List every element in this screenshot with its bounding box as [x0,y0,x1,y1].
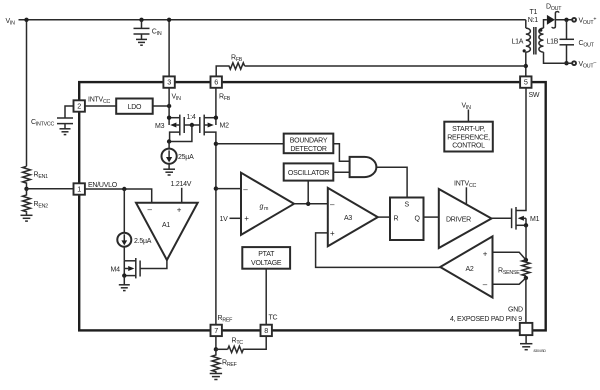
pin 5 [520,76,540,99]
IC boundary [79,82,546,330]
svg-text:2.5µA: 2.5µA [134,238,152,245]
wire Q to driver [424,216,439,218]
svg-text:8304 BD: 8304 BD [534,349,547,353]
pin 1 [74,182,118,195]
svg-text:1:4: 1:4 [187,114,196,121]
current source 2.5uA [117,189,151,261]
svg-text:g: g [260,204,264,211]
diode DOUT schottky [546,3,572,28]
ground under M4 [123,276,125,285]
resistor REN1 [23,166,49,189]
pin 7 [211,315,234,336]
current source 25uA [162,142,195,176]
svg-text:5: 5 [524,78,528,87]
wire gm output [294,203,328,205]
block STARTUP [444,103,493,152]
capacitor COUT [560,18,595,66]
block LDO [85,99,171,114]
svg-text:1: 1 [77,185,81,194]
phase dot L1A [523,49,526,52]
wire gm minus input [216,188,241,190]
winding L1B [539,28,544,52]
resistor RTC [214,336,267,352]
transformer T1 [512,9,559,76]
block PTAT VOLTAGE [242,247,290,325]
node junction dot VIN left [24,18,28,22]
svg-text:DRIVER: DRIVER [446,217,471,224]
svg-text:SW: SW [529,92,540,99]
terminal VOUT- [572,61,576,65]
winding L1A [526,28,531,52]
wire VIN top rail [19,19,526,21]
wire A1 out to M4 gate [140,260,167,269]
ground under REN2 [26,213,28,215]
wire pin3 rail from VIN [168,20,170,77]
svg-text:1.214V: 1.214V [171,181,192,188]
pin 2 [74,97,111,112]
transistor M4 [111,258,167,291]
svg-text:REFERENCE,: REFERENCE, [447,134,490,141]
pin 8 [261,315,278,337]
ground under 25uA source [168,164,170,169]
pin 4 GND pad [450,307,546,354]
svg-text:CONTROL: CONTROL [452,143,485,150]
svg-text:–: – [243,185,248,194]
latch SR [390,198,439,241]
svg-text:–: – [330,200,335,209]
svg-text:7: 7 [214,326,218,335]
terminal VOUT+ [572,18,576,22]
svg-text:M3: M3 [155,123,165,130]
node junction on EN wire [122,187,126,191]
wire A3 output to latch [378,216,390,218]
ground under CIN [136,38,147,40]
svg-text:A3: A3 [344,215,352,222]
svg-text:1V: 1V [220,216,229,223]
resistor RSENSE [498,225,530,323]
ground under GND pad [525,335,527,343]
svg-text:+: + [330,229,335,238]
amp gm [216,173,328,235]
node SW junction [524,64,528,68]
svg-text:Q: Q [415,215,421,222]
svg-text:+: + [177,205,182,214]
svg-text:TC: TC [269,315,278,322]
op-amp A3 [316,188,441,268]
svg-text:GND: GND [508,307,523,314]
node EN divider junction [24,187,28,191]
transistor M2 [167,88,229,325]
wire VIN left rail down to REN1 [26,20,28,167]
svg-text:START-UP,: START-UP, [452,126,485,133]
wire A2 minus input [493,278,526,284]
svg-text:L1B: L1B [547,39,559,46]
svg-text:4, EXPOSED PAD PIN 9: 4, EXPOSED PAD PIN 9 [450,316,522,323]
svg-text:BOUNDARY: BOUNDARY [290,137,328,144]
capacitor CINTVCC [31,106,74,135]
svg-text:+: + [483,249,488,258]
svg-text:2: 2 [77,102,81,111]
block BOUNDARY DETECTOR [216,134,350,162]
svg-text:M1: M1 [530,216,540,223]
ground under RREF [210,373,222,375]
svg-text:–: – [148,205,153,214]
wire gate tie 1:4 [184,124,200,126]
svg-text:6: 6 [214,78,218,87]
pin 3 [163,76,181,102]
svg-text:EN/UVLO: EN/UVLO [88,182,118,189]
svg-text:L1A: L1A [512,39,524,46]
wire primary top lead [525,20,527,28]
resistor RFB [216,55,526,77]
wire internal rail pin6 to pin7 junction dots [214,142,218,146]
wire secondary top lead [544,20,547,28]
svg-text:DETECTOR: DETECTOR [290,146,327,153]
op-amp A2 [440,236,526,297]
svg-text:A2: A2 [466,266,474,273]
svg-text:3: 3 [167,78,171,87]
svg-text:PTAT: PTAT [258,251,275,258]
phase dot L1B [539,29,542,32]
driver [439,181,492,249]
resistor RREF [210,349,238,379]
block OSCILLATOR [284,163,350,180]
wire EN to pin1 [27,188,74,190]
svg-text:+: + [244,214,249,223]
core [534,27,536,55]
ground under CINTVCC [60,128,71,130]
svg-text:25µA: 25µA [178,154,194,161]
resistor REN2 [21,189,49,221]
svg-text:–: – [483,280,488,289]
svg-text:OSCILLATOR: OSCILLATOR [288,170,329,177]
op-amp A1 [136,203,198,260]
gate AND [350,157,408,198]
wire pin1 to A1 [85,189,152,203]
svg-text:8: 8 [264,326,268,335]
svg-text:T1: T1 [530,9,538,16]
svg-text:M4: M4 [111,266,121,273]
wire A3 plus input from A2 [316,233,441,268]
svg-text:VOLTAGE: VOLTAGE [251,260,282,267]
svg-text:A1: A1 [162,222,170,229]
capacitor CIN [134,18,162,46]
transistor M1 [492,88,540,230]
svg-text:N:1: N:1 [528,17,539,24]
transistor M3 [155,88,184,142]
svg-text:S: S [404,201,409,208]
svg-text:R: R [394,215,399,222]
pin 6 [211,76,231,102]
wire A2 plus input [493,252,526,260]
svg-text:LDO: LDO [128,104,142,111]
wire primary bottom lead [525,52,527,76]
wire secondary bottom [544,52,572,63]
svg-text:M2: M2 [220,123,230,130]
